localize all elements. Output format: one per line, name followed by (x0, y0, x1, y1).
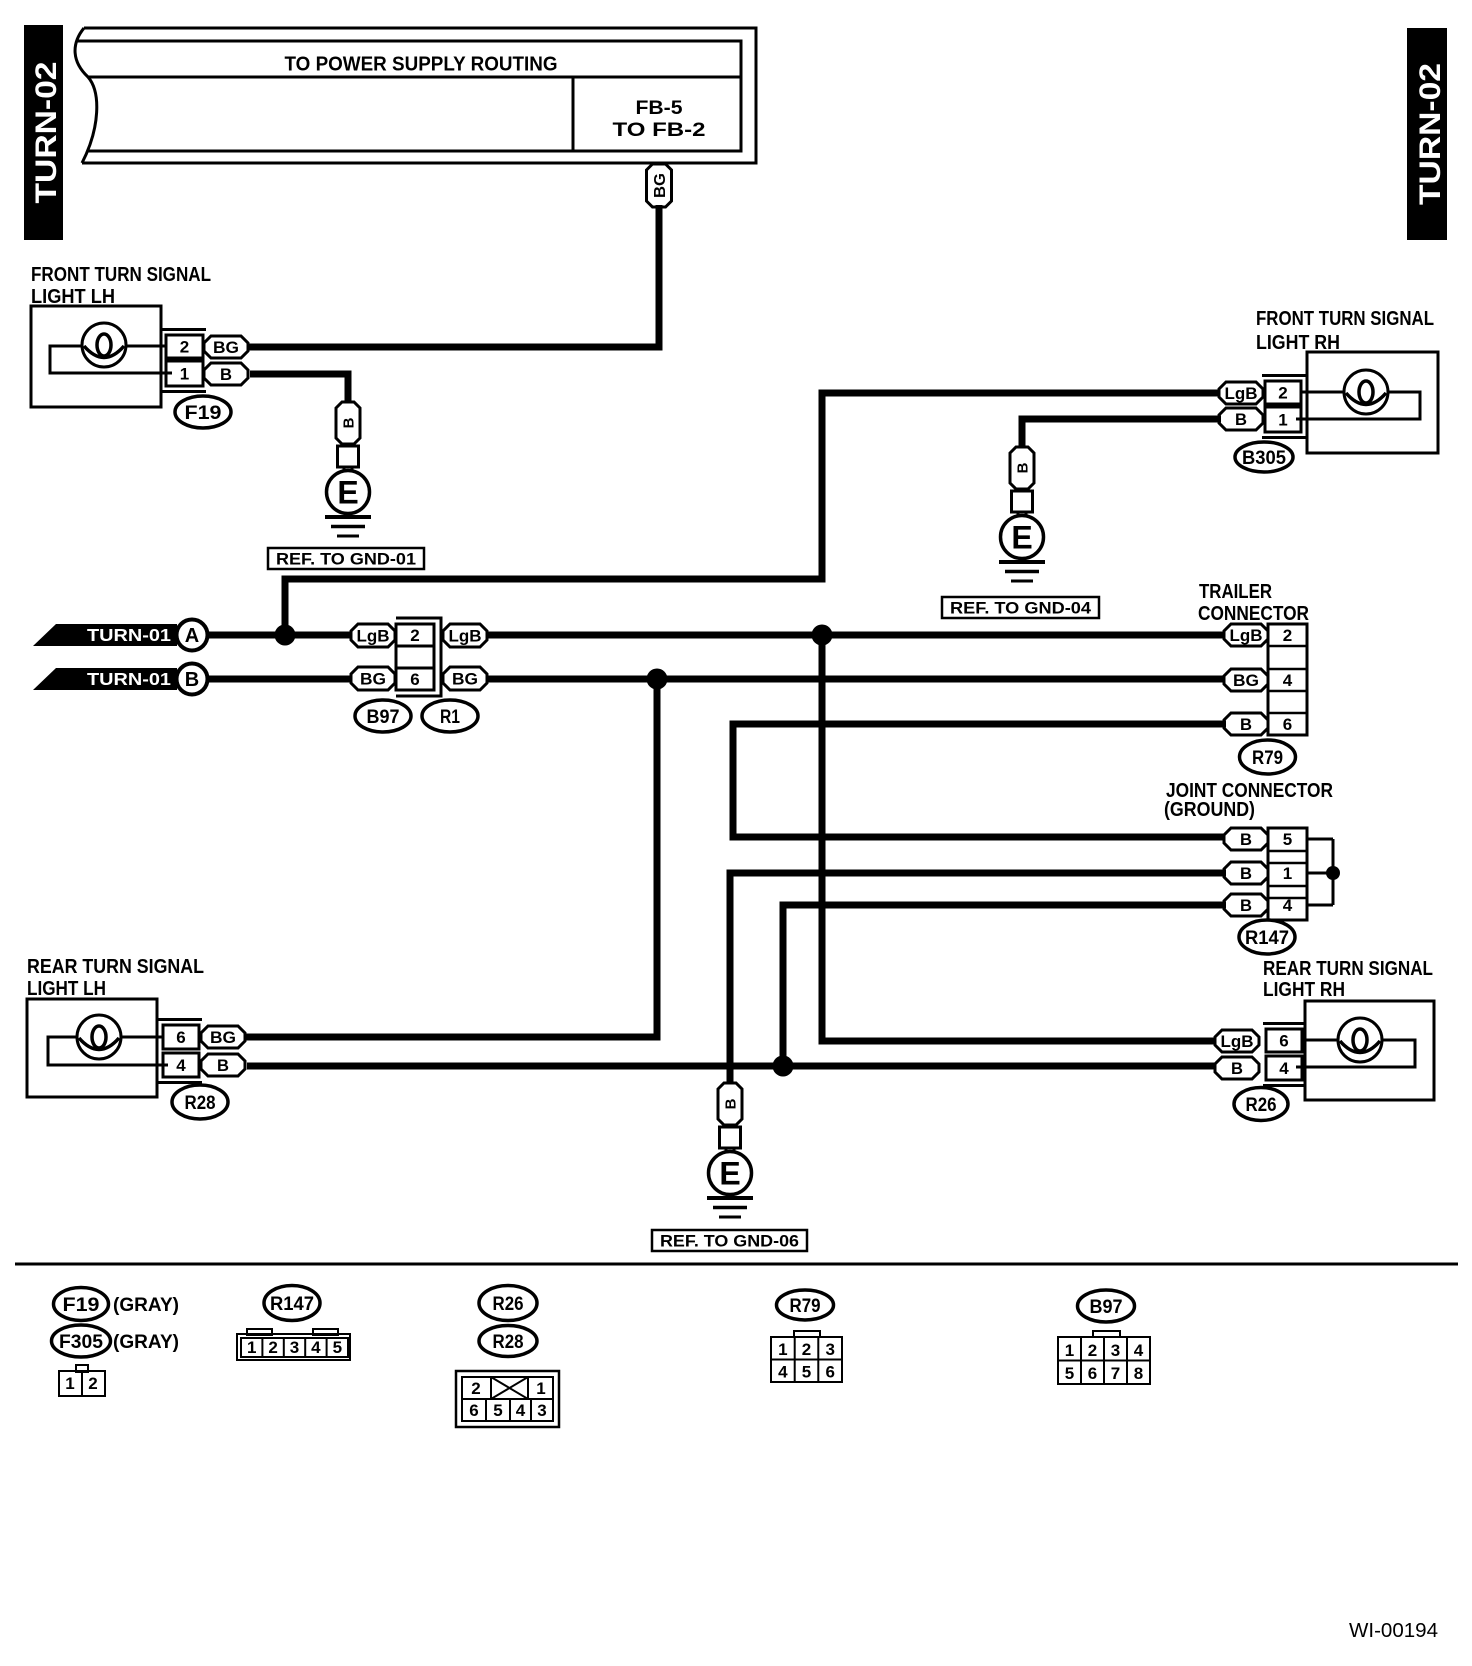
wire BG from power supply to front turn LH pin 2 (246, 205, 659, 347)
svg-text:B: B (185, 669, 199, 691)
svg-text:R147: R147 (1245, 928, 1289, 949)
wire color tag B (joint pin 5) (1224, 828, 1268, 850)
connector ref R28 (172, 1085, 228, 1119)
legend ref R79 (777, 1290, 834, 1320)
junction net B / rear LH branch (647, 669, 668, 690)
svg-text:REAR TURN SIGNAL: REAR TURN SIGNAL (27, 956, 204, 978)
wire B linking rear turn LH pin 4 and rear RH pin 4 (247, 1063, 1217, 1070)
svg-text:3: 3 (825, 1340, 834, 1359)
legend ref R147 (264, 1286, 320, 1321)
wire LgB from net A to front turn RH pin 2 (285, 393, 1221, 635)
svg-text:LgB: LgB (1221, 1032, 1254, 1051)
svg-text:B: B (217, 1056, 229, 1075)
legend connector R26/R28 pin view (456, 1371, 559, 1427)
svg-text:(GROUND): (GROUND) (1164, 799, 1255, 821)
legend ref R28 (479, 1326, 537, 1357)
ground sleeve (GND-01) (338, 446, 359, 467)
wire color tag BG (net B right) (443, 667, 487, 690)
connector ref F19 (175, 396, 231, 428)
svg-text:1: 1 (1283, 864, 1292, 883)
wire color tag B (rear LH pin 4) (201, 1054, 245, 1076)
joint connector ground bus (1307, 839, 1333, 905)
svg-text:TURN-02: TURN-02 (1414, 63, 1447, 205)
wire color tag BG (power feed) (647, 164, 672, 207)
bulb (front turn signal LH) (82, 323, 126, 367)
separator line (15, 1263, 1458, 1266)
svg-text:WI-00194: WI-00194 (1349, 1620, 1438, 1642)
label TRAILER CONNECTOR (1198, 581, 1309, 625)
svg-text:B: B (1235, 410, 1247, 429)
svg-text:2: 2 (268, 1338, 277, 1357)
svg-text:E: E (719, 1156, 740, 1192)
wire color tag B (rear RH pin 4) (1215, 1057, 1259, 1079)
svg-text:(GRAY): (GRAY) (113, 1332, 179, 1353)
bulb (rear turn signal LH) (77, 1015, 121, 1059)
svg-text:R28: R28 (493, 1332, 524, 1353)
svg-text:B: B (1240, 864, 1252, 883)
legend ref R26 (479, 1286, 537, 1321)
svg-text:B97: B97 (367, 707, 400, 728)
wire color tag BG (rear LH pin 6) (201, 1026, 245, 1048)
svg-text:6: 6 (1088, 1364, 1097, 1383)
reference box REF. TO GND-06 (652, 1230, 807, 1251)
wire color tag BG (net B left) (351, 667, 395, 690)
wire color tag B (joint pin 4) (1224, 894, 1268, 916)
svg-text:1: 1 (247, 1338, 256, 1357)
svg-text:8: 8 (1134, 1364, 1143, 1383)
wire color tag BG (trailer pin 4) (1224, 669, 1268, 691)
svg-text:5: 5 (802, 1363, 811, 1382)
svg-text:B: B (1231, 1059, 1243, 1078)
ground sleeve (GND-06) (720, 1127, 741, 1148)
ground sleeve (GND-04) (1012, 491, 1033, 512)
front turn signal light RH box (1307, 352, 1438, 453)
svg-text:B97: B97 (1090, 1297, 1123, 1318)
svg-text:LgB: LgB (357, 627, 390, 646)
svg-text:REF. TO GND-01: REF. TO GND-01 (276, 551, 416, 569)
wire color tag LgB (front RH pin 2) (1219, 382, 1263, 404)
svg-text:R147: R147 (270, 1294, 314, 1315)
inline connector B97/R1 cells (396, 618, 441, 696)
legend ref F305 (52, 1325, 111, 1357)
wire color tag LgB (net A right) (443, 624, 487, 647)
svg-text:1: 1 (536, 1379, 545, 1398)
svg-text:7: 7 (1111, 1364, 1120, 1383)
svg-text:5: 5 (333, 1338, 342, 1357)
svg-text:R26: R26 (493, 1294, 524, 1315)
svg-text:4: 4 (1283, 671, 1293, 690)
svg-text:TO FB-2: TO FB-2 (613, 120, 706, 141)
svg-text:4: 4 (778, 1363, 788, 1382)
connector R26 pins 6/4 (1263, 1024, 1305, 1086)
internal wiring (rear LH) (48, 1037, 168, 1065)
svg-text:LgB: LgB (1230, 626, 1263, 645)
wire color tag B (trailer pin 6) (1224, 713, 1268, 735)
svg-text:REF. TO GND-06: REF. TO GND-06 (660, 1233, 799, 1251)
junction net A / rear RH branch (812, 625, 833, 646)
label FRONT TURN SIGNAL LIGHT RH (1256, 308, 1434, 354)
svg-text:2: 2 (1283, 626, 1292, 645)
svg-text:3: 3 (1111, 1341, 1120, 1360)
power supply routing box (75, 28, 756, 163)
wire B from trailer pin 6 to joint connector pin 5 (733, 724, 1226, 837)
svg-text:F19: F19 (185, 403, 222, 424)
svg-text:LIGHT RH: LIGHT RH (1263, 979, 1345, 1001)
svg-text:4: 4 (516, 1401, 526, 1420)
svg-text:BG: BG (213, 338, 239, 357)
wire net A from tag to connector B97 (209, 632, 353, 639)
svg-text:TURN-02: TURN-02 (30, 62, 63, 204)
internal wiring (rear RH) (1296, 1040, 1415, 1067)
svg-text:4: 4 (1134, 1341, 1144, 1360)
ground symbol E (GND-04) (999, 512, 1045, 581)
bulb (front turn signal RH) (1344, 370, 1388, 414)
trailer connector R79 cells (1268, 624, 1307, 735)
svg-text:6: 6 (410, 670, 419, 689)
svg-text:2: 2 (471, 1379, 480, 1398)
svg-text:2: 2 (1278, 384, 1287, 403)
junction joint connector ground bus (1326, 866, 1340, 880)
legend connector B97 pin view (1058, 1331, 1150, 1384)
wire color tag LgB (net A left) (351, 624, 395, 647)
svg-text:5: 5 (1283, 830, 1292, 849)
legend ref F19 (54, 1288, 109, 1321)
ground wire tag B (GND-04) (1010, 447, 1034, 489)
wire LgB from net A to rear turn RH pin 6 (822, 635, 1217, 1041)
svg-text:1: 1 (1278, 411, 1287, 430)
svg-text:E: E (337, 475, 358, 511)
svg-text:4: 4 (176, 1056, 186, 1075)
svg-text:REF. TO GND-04: REF. TO GND-04 (950, 600, 1092, 618)
front turn signal light LH box (31, 306, 161, 407)
svg-text:LIGHT LH: LIGHT LH (27, 978, 106, 1000)
wire color tag B (front LH pin 1) (204, 363, 248, 385)
svg-text:BG: BG (452, 670, 478, 689)
svg-text:REAR TURN SIGNAL: REAR TURN SIGNAL (1263, 958, 1433, 980)
svg-text:3: 3 (290, 1338, 299, 1357)
rear turn signal light LH box (27, 999, 157, 1097)
wire net B from connector R1 to trailer connector (485, 676, 1226, 683)
svg-text:A: A (185, 625, 199, 647)
svg-text:LgB: LgB (449, 627, 482, 646)
wire B from front RH pin 1 to ground E (1022, 419, 1221, 447)
legend connector F19/F305 pin view (59, 1365, 105, 1396)
svg-text:(GRAY): (GRAY) (113, 1295, 179, 1316)
svg-text:B305: B305 (1242, 448, 1286, 469)
svg-text:4: 4 (311, 1338, 321, 1357)
junction net A / front RH branch (275, 625, 296, 646)
wire color tag LgB (rear RH pin 6) (1215, 1030, 1259, 1052)
svg-text:BG: BG (360, 670, 386, 689)
rear turn signal light RH box (1305, 1001, 1434, 1100)
page banner TURN-02 left (24, 25, 63, 240)
joint connector R147 cells (1268, 828, 1307, 920)
label REAR TURN SIGNAL LIGHT RH (1263, 958, 1433, 1001)
wire B from joint pin 1 to ground E (730, 873, 1226, 1083)
svg-text:2: 2 (88, 1374, 97, 1393)
svg-text:F19: F19 (63, 1295, 100, 1316)
svg-text:6: 6 (176, 1028, 185, 1047)
svg-text:6: 6 (469, 1401, 478, 1420)
ground wire tag B (GND-01) (336, 402, 360, 444)
svg-text:R26: R26 (1246, 1095, 1277, 1116)
svg-text:R1: R1 (440, 707, 460, 728)
svg-text:R79: R79 (790, 1296, 821, 1317)
svg-text:4: 4 (1283, 896, 1293, 915)
svg-text:1: 1 (1065, 1341, 1074, 1360)
wire net B from tag to connector B97 (209, 676, 353, 683)
svg-text:6: 6 (825, 1363, 834, 1382)
wire B from joint pin 4 to rear lights B wire (783, 905, 1226, 1066)
reference box REF. TO GND-01 (268, 548, 424, 569)
label REAR TURN SIGNAL LIGHT LH (27, 956, 204, 1000)
svg-text:FRONT TURN SIGNAL: FRONT TURN SIGNAL (31, 264, 211, 286)
junction joint pin 4 / rear B wire (773, 1056, 794, 1077)
net tag TURN-01 A (33, 620, 208, 651)
wire net A from connector R1 to trailer connector (485, 632, 1226, 639)
connector ref B97 (355, 700, 411, 732)
svg-text:4: 4 (1279, 1059, 1289, 1078)
svg-text:TURN-01: TURN-01 (87, 669, 171, 689)
wire color tag BG (front LH pin 2) (204, 336, 248, 358)
svg-text:B: B (220, 365, 232, 384)
svg-text:TO POWER SUPPLY ROUTING: TO POWER SUPPLY ROUTING (285, 54, 558, 76)
connector ref R1 (422, 700, 478, 732)
svg-text:5: 5 (1065, 1364, 1074, 1383)
svg-text:BG: BG (1233, 671, 1259, 690)
svg-text:FB-5: FB-5 (636, 98, 683, 119)
wire B from front LH pin 1 to ground E (250, 374, 348, 402)
svg-text:CONNECTOR: CONNECTOR (1198, 603, 1309, 625)
svg-text:1: 1 (65, 1374, 74, 1393)
connector ref R147 (joint) (1239, 920, 1295, 954)
ground symbol E (GND-01) (325, 467, 371, 536)
wire color tag B (joint pin 1) (1224, 862, 1268, 884)
svg-text:LgB: LgB (1225, 384, 1258, 403)
connector F19 pins 2/1 (161, 330, 206, 392)
wire BG from net B to rear turn LH pin 6 (243, 679, 657, 1037)
svg-text:B: B (1240, 896, 1252, 915)
bulb (rear turn signal RH) (1338, 1018, 1382, 1062)
svg-text:B: B (722, 1098, 739, 1109)
svg-text:BG: BG (210, 1028, 236, 1047)
legend connector R147 pin view (237, 1329, 350, 1360)
label FRONT TURN SIGNAL LIGHT LH (31, 264, 211, 308)
svg-text:E: E (1011, 520, 1032, 556)
connector B305 pins 2/1 (1262, 376, 1307, 438)
wire color tag LgB (trailer pin 2) (1224, 624, 1268, 646)
connector ref B305 (1235, 442, 1293, 472)
svg-text:3: 3 (537, 1401, 546, 1420)
svg-text:B: B (1240, 715, 1252, 734)
svg-text:TURN-01: TURN-01 (87, 625, 171, 645)
connector ref R79 (trailer) (1240, 740, 1296, 774)
svg-text:6: 6 (1283, 715, 1292, 734)
svg-text:R79: R79 (1252, 748, 1283, 769)
svg-text:FRONT TURN SIGNAL: FRONT TURN SIGNAL (1256, 308, 1434, 330)
ground wire tag B (GND-06) (718, 1083, 742, 1125)
reference box REF. TO GND-04 (942, 597, 1099, 618)
svg-text:F305: F305 (59, 1332, 103, 1353)
legend ref B97 (1078, 1290, 1135, 1322)
connector ref R26 (1234, 1088, 1288, 1121)
svg-text:2: 2 (802, 1340, 811, 1359)
page banner TURN-02 right (1407, 28, 1447, 240)
internal wiring (front LH) (50, 346, 172, 373)
svg-text:R28: R28 (185, 1093, 216, 1114)
internal wiring (front RH) (1296, 392, 1420, 419)
connector R28 pins 6/4 (157, 1020, 202, 1083)
svg-text:2: 2 (1088, 1341, 1097, 1360)
net tag TURN-01 B (33, 664, 208, 695)
svg-text:2: 2 (180, 338, 189, 357)
svg-text:2: 2 (410, 626, 419, 645)
svg-text:TRAILER: TRAILER (1199, 581, 1272, 603)
wire color tag B (front RH pin 1) (1219, 408, 1263, 430)
svg-text:5: 5 (493, 1401, 502, 1420)
svg-text:6: 6 (1279, 1032, 1288, 1051)
svg-text:B: B (340, 417, 357, 428)
svg-text:B: B (1240, 830, 1252, 849)
svg-text:BG: BG (652, 173, 669, 198)
ground symbol E (GND-06) (707, 1148, 753, 1217)
svg-text:1: 1 (778, 1340, 787, 1359)
svg-text:B: B (1014, 462, 1031, 473)
legend connector R79 pin view (771, 1331, 842, 1382)
svg-text:1: 1 (180, 365, 189, 384)
label JOINT CONNECTOR (GROUND) (1164, 780, 1333, 821)
